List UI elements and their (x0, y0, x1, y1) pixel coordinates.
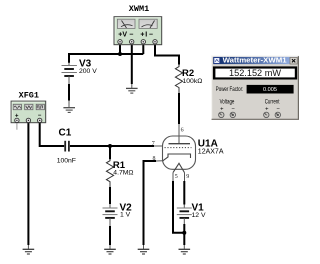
value 200 V (79, 68, 97, 75)
resistor R1 (106, 146, 113, 187)
svg-text:I: I (145, 32, 147, 39)
svg-text:Voltage: Voltage (220, 100, 235, 106)
svg-text:−: − (232, 107, 236, 113)
wire: wattmeter -V terminal to ground (131, 44, 133, 88)
current terminal signs (265, 107, 280, 113)
label R2 (182, 68, 194, 79)
label U1A (198, 138, 218, 149)
svg-text:+: + (140, 32, 144, 39)
value 100nF (57, 157, 76, 164)
wire: V3 top to wattmeter +V and +I terminals (69, 44, 143, 63)
wire: wattmeter -I terminal to R2 (155, 44, 179, 65)
voltage terminals (219, 112, 236, 117)
wire: XFG1 minus terminal to C1 (40, 123, 64, 146)
triode U1A envelope (163, 136, 196, 169)
wire: R2 bottom to tube plate pin 6 (178, 93, 180, 124)
power factor label (216, 87, 244, 93)
wire: V3 to ground (68, 84, 70, 107)
ground: under V1 (179, 249, 191, 254)
window title (223, 56, 287, 65)
wattmeter window Wattmeter-XWM1 (211, 56, 299, 120)
value 4.7MΩ (113, 170, 133, 177)
pin number 5 (175, 174, 178, 180)
value 1 V (120, 212, 131, 219)
svg-text:100nF: 100nF (57, 157, 76, 164)
wire: C1 to grid pin 7 (70, 145, 154, 147)
capacitor C1 (65, 141, 69, 152)
label XFG1 (19, 91, 39, 101)
svg-text:−: − (149, 32, 153, 39)
ground: cathode (138, 249, 150, 254)
label V2 (120, 202, 133, 213)
svg-text:152.152 mW: 152.152 mW (229, 68, 282, 78)
heater filament (173, 163, 185, 172)
close button (290, 57, 297, 64)
label V1 (192, 202, 205, 213)
window icon (214, 58, 220, 64)
voltage label (220, 100, 235, 106)
wire: pin 9 to V1 top (183, 181, 185, 208)
svg-text:+V: +V (118, 32, 127, 39)
pin number 7 (152, 141, 155, 147)
value 100kΩ (183, 78, 203, 85)
junction: V1 bottom (182, 231, 186, 235)
label R1 (113, 160, 126, 171)
pin number 8 (153, 156, 156, 162)
ground: XFG1 common (23, 249, 35, 254)
svg-text:200 V: 200 V (79, 68, 97, 75)
grid pin 7 stub (154, 145, 163, 147)
wire: XFG1 common to ground (27, 123, 29, 249)
label C1 (59, 128, 72, 139)
wire: heater pin 5 down and over (173, 181, 184, 233)
grid (dashed) (165, 147, 192, 149)
svg-text:Power Factor:: Power Factor: (216, 87, 244, 93)
function generator XFG1 (11, 101, 46, 123)
pin number 6 (181, 128, 184, 134)
wire: R1 to V2 (109, 187, 111, 204)
svg-text:Current: Current (265, 100, 280, 106)
svg-text:0.005: 0.005 (263, 87, 277, 93)
ground: under V3 (63, 108, 75, 113)
power factor display 0.005 (247, 85, 294, 94)
pin 6 plate lead (178, 124, 180, 144)
battery V3 (62, 62, 77, 84)
svg-text:XWM1: XWM1 (129, 4, 149, 14)
current terminals (264, 112, 281, 117)
ground: under wattmeter -V (126, 88, 138, 93)
pin number 9 (186, 174, 189, 180)
value 12 V (192, 212, 206, 219)
svg-text:9: 9 (186, 174, 189, 180)
ground: under V2 (104, 249, 116, 254)
svg-text:100kΩ: 100kΩ (183, 78, 203, 85)
junction: R1 top (108, 144, 112, 148)
svg-text:Wattmeter-XWM1: Wattmeter-XWM1 (223, 56, 287, 65)
svg-text:C1: C1 (59, 128, 72, 139)
value 12AX7A (198, 148, 224, 155)
svg-text:1 V: 1 V (120, 212, 131, 219)
svg-text:12AX7A: 12AX7A (198, 148, 224, 155)
plate (anode) (169, 143, 191, 145)
wire: V2 to ground (109, 226, 111, 249)
cathode (163, 154, 191, 161)
wattmeter XWM1 instrument (114, 17, 162, 45)
wire: V1 to ground (183, 224, 185, 249)
wire: cathode pin 8 to ground (144, 161, 163, 249)
svg-text:12 V: 12 V (192, 212, 206, 219)
stub: XFG1 plus terminal (16, 123, 18, 130)
power display 152.152 mW (213, 66, 297, 79)
battery V1 (177, 208, 192, 224)
label V3 (79, 58, 92, 69)
junction: +V wire junction (118, 52, 122, 56)
current label (265, 100, 280, 106)
svg-text:−: − (277, 107, 281, 113)
svg-text:6: 6 (181, 128, 184, 134)
svg-text:5: 5 (175, 174, 178, 180)
svg-text:−: − (129, 32, 133, 39)
voltage terminal signs (220, 107, 235, 113)
heater pin stubs 5 and 9 (173, 173, 185, 181)
svg-text:4.7MΩ: 4.7MΩ (113, 170, 133, 177)
label XWM1 (129, 4, 149, 14)
svg-text:XFG1: XFG1 (19, 91, 39, 101)
resistor R2 (175, 65, 182, 94)
battery V2 (103, 204, 118, 226)
